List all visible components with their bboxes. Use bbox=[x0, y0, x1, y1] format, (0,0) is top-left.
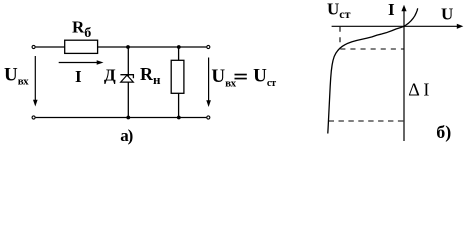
resistor R_n bbox=[171, 60, 184, 93]
dashed horizontal I_min bbox=[340, 48, 403, 50]
svg-text:Δ I: Δ I bbox=[408, 80, 429, 100]
node junction R_n bottom bbox=[177, 116, 181, 120]
current arrow I bbox=[59, 62, 98, 64]
U axis bbox=[332, 25, 460, 27]
node junction diode top bbox=[126, 45, 130, 49]
terminal bottom-right bbox=[207, 116, 210, 119]
svg-text:Д: Д bbox=[104, 65, 116, 84]
I axis bbox=[403, 9, 405, 142]
terminal top-right bbox=[207, 45, 210, 48]
dashed vertical U_st marker bbox=[339, 27, 341, 47]
svg-text:а): а) bbox=[120, 126, 132, 145]
arrow U_out down right bbox=[208, 58, 210, 103]
zener diode D cathode bar with hook bbox=[120, 75, 133, 79]
zener characteristic curve bbox=[328, 8, 418, 133]
resistor R_b bbox=[65, 40, 98, 53]
arrow U_vx down left bbox=[34, 56, 36, 102]
terminal bottom-left bbox=[32, 116, 35, 119]
zener diode D triangle bbox=[121, 75, 134, 82]
terminal top-left bbox=[32, 45, 35, 48]
wire R_b to right terminal bbox=[98, 46, 207, 48]
svg-text:I: I bbox=[388, 0, 395, 19]
wire zener branch vertical bbox=[127, 47, 129, 118]
wire top-left to R_b bbox=[36, 46, 65, 48]
node junction diode bottom bbox=[126, 116, 130, 120]
wire R_n bottom bbox=[178, 93, 180, 117]
dashed horizontal I_max bbox=[329, 120, 404, 122]
bottom wire bbox=[36, 117, 207, 119]
svg-text:б): б) bbox=[436, 122, 451, 143]
svg-text:U: U bbox=[441, 5, 453, 24]
svg-text:I: I bbox=[75, 67, 82, 86]
node junction R_n top bbox=[177, 45, 181, 49]
wire R_n top bbox=[178, 47, 180, 60]
